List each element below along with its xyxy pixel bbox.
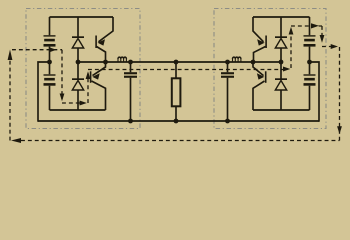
arrow down on x322 — [320, 35, 325, 43]
wire: dashed x322 down — [321, 26, 323, 37]
diode D1 — [72, 36, 84, 48]
wire: dashed mid horizontal y69.5 — [88, 69, 283, 71]
capacitor Cf-right plates — [221, 72, 234, 78]
transistor T1 base bar — [95, 36, 97, 49]
capacitor Cf-left leads — [130, 62, 132, 121]
diode D4 — [275, 78, 287, 90]
diode D1 lead wires — [77, 17, 79, 62]
wire: left top rail — [50, 16, 114, 18]
arrow down on x62 jog — [60, 94, 65, 102]
left converter cell enclosure (dash-dot box) — [26, 9, 140, 129]
capacitor C3 — [304, 35, 316, 46]
arrow up on x88 jog — [86, 71, 91, 79]
transistor T1 leads — [99, 17, 114, 42]
arrow right across left cap leg — [49, 47, 57, 52]
wire: dashed loop left vertical — [9, 52, 11, 141]
transistor T3 arrow — [257, 39, 264, 45]
transistor T2 base bar — [90, 71, 92, 83]
transistor T3 leads — [253, 17, 264, 42]
wire: dashed y26 right — [291, 25, 322, 27]
wire: dashed x291 up — [290, 30, 292, 69]
node: cap midpoint right — [307, 60, 312, 65]
capacitor C1 lead wires — [49, 17, 51, 62]
node: filter cap right bottom — [225, 119, 230, 124]
transistor T1 arrow — [98, 39, 105, 45]
arrow up on left loop — [8, 50, 13, 61]
node: transistor leg left — [103, 60, 108, 65]
arrow up on x291 — [289, 27, 294, 35]
wire: right cap midpoint to riser — [310, 62, 320, 122]
inductor Ls-right — [233, 57, 241, 62]
transistor T2 leads — [93, 62, 106, 76]
wire: dashed jog x62 down — [61, 50, 63, 99]
node: filter cap left top — [128, 60, 133, 65]
node: cap midpoint left — [47, 60, 52, 65]
wire: dashed jog y103 right — [62, 102, 84, 104]
node: transistor leg right — [251, 60, 256, 65]
capacitor C4 — [304, 74, 316, 85]
wire: right cell bottom rail — [253, 109, 310, 111]
resistor R leads — [175, 62, 177, 121]
wire: left cell bottom rail — [50, 109, 106, 111]
diode D4 lead wires — [280, 62, 282, 110]
arrow right on y103 jog — [80, 101, 87, 106]
transistor T2 arrow — [92, 73, 99, 79]
wire: dashed loop bottom horizontal — [21, 140, 340, 142]
arrow right across right cap leg — [311, 23, 319, 28]
arrow right on y46.5 — [331, 44, 338, 49]
arrow right at end of y69.5 — [283, 67, 290, 72]
node: resistor top — [174, 60, 179, 65]
node: diode leg right — [279, 60, 284, 65]
wire: dashed loop top-left horizontal — [12, 49, 62, 51]
diode D2 lead wires — [77, 62, 79, 110]
arrow left at bottom loop — [11, 138, 21, 143]
capacitor Cf-left plates — [124, 72, 137, 78]
wire: dashed jog x88 up — [87, 74, 89, 104]
wire: switch-node bus — [78, 61, 281, 63]
transistor T4 base bar — [265, 71, 267, 83]
wire: dashed y46.5 right — [322, 46, 331, 48]
arrow down on right loop — [337, 126, 342, 134]
capacitor C2 — [44, 74, 56, 85]
capacitor C4 lead wires — [309, 62, 311, 110]
wire: left cap midpoint to riser — [38, 62, 50, 122]
capacitor C2 lead wires — [49, 62, 51, 110]
capacitor C3 lead wires — [309, 17, 311, 62]
transistor T4 arrow — [257, 73, 264, 79]
capacitor C1 — [44, 35, 56, 46]
node: resistor bottom — [174, 119, 179, 124]
transistor T3 base bar — [265, 36, 267, 49]
node: diode leg left — [76, 60, 81, 65]
wire: bottom return bus — [38, 120, 319, 122]
wire: right top rail — [253, 16, 310, 18]
node: filter cap left bottom — [128, 119, 133, 124]
diode D3 lead wires — [280, 17, 282, 62]
right converter cell enclosure (dash-dot box) — [214, 9, 326, 129]
diode D3 — [275, 36, 287, 48]
transistor T4 leads — [253, 62, 264, 76]
resistor R body — [172, 78, 181, 106]
node: filter cap right top — [225, 60, 230, 65]
wire: dashed loop right vertical — [339, 47, 341, 141]
inductor Ls-left — [118, 57, 126, 62]
capacitor Cf-right leads — [227, 62, 229, 121]
diode D2 — [72, 78, 84, 90]
